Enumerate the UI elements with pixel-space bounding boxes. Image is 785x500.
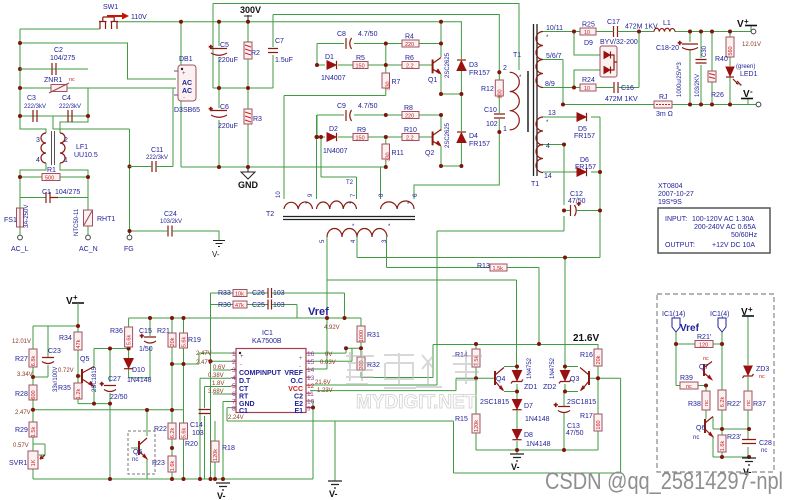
dual diode D9 BYV32-200	[584, 39, 638, 77]
svg-text:R19: R19	[188, 337, 201, 344]
svg-text:1N4007: 1N4007	[321, 75, 346, 82]
wire: ZD2 C13 column	[564, 367, 578, 451]
resistor R21b	[695, 334, 713, 349]
svg-text:103/2kV: 103/2kV	[160, 219, 182, 225]
svg-text:500: 500	[45, 176, 54, 182]
resistor R15	[455, 414, 480, 433]
wire: C24 line to V-	[130, 231, 220, 240]
svg-text:C16: C16	[621, 85, 634, 92]
svg-text:1000: 1000	[359, 330, 365, 342]
wire: nc box V+ ZD3 R37 C28 column	[747, 316, 749, 458]
ground GND symbol	[238, 167, 259, 190]
label V+ control	[66, 293, 84, 307]
IC pin voltage annotations	[196, 351, 336, 421]
svg-text:OUTPUT:: OUTPUT:	[665, 242, 695, 249]
wire: T2 feedback pin3 line with R13 to 21.6V rail	[387, 237, 540, 344]
svg-text:R23: R23	[152, 460, 165, 467]
svg-text:21.6V: 21.6V	[573, 333, 599, 344]
svg-text:C17: C17	[607, 19, 620, 26]
svg-text:R12: R12	[481, 86, 494, 93]
transistor Q2 2SC2625	[425, 122, 451, 157]
svg-text:+: +	[209, 107, 213, 113]
resistor R40	[715, 37, 734, 63]
svg-text:C11: C11	[151, 147, 163, 154]
svg-text:6: 6	[232, 391, 236, 398]
svg-text:Vref: Vref	[308, 306, 329, 318]
wire: Q2 collector emitter	[441, 115, 461, 166]
wire: GND rail	[181, 166, 386, 168]
wire: T2 pin9 column	[316, 115, 318, 199]
svg-text:nc: nc	[761, 448, 767, 454]
resistor R3	[244, 109, 262, 124]
transistor Q1 2SC2625	[428, 52, 451, 84]
transformer T2 feedback winding bottom row	[320, 224, 391, 243]
resistor R26	[708, 71, 724, 99]
wire: R19 R20 column	[183, 318, 185, 479]
transistor Q6b	[693, 417, 713, 442]
resistor R27	[12, 339, 37, 378]
text XT0804 block	[658, 183, 694, 206]
svg-text:Q6: Q6	[133, 449, 142, 456]
svg-text:C8: C8	[337, 31, 346, 38]
svg-text:BYV/32-200: BYV/32-200	[600, 39, 638, 46]
svg-text:1.5k: 1.5k	[493, 266, 504, 272]
resistor R25	[580, 22, 596, 37]
wire: 300V rail	[118, 21, 462, 23]
wire: nc box flag columns and R21b line	[676, 332, 722, 386]
capacitor C26	[252, 288, 285, 298]
svg-text:2SC1815: 2SC1815	[567, 399, 596, 406]
svg-text:ZD1: ZD1	[524, 384, 537, 391]
svg-text:R34: R34	[59, 335, 72, 342]
svg-text:10: 10	[584, 86, 590, 92]
wire: R7 column	[385, 44, 387, 96]
svg-text:5.6k: 5.6k	[127, 335, 133, 346]
resistor R13	[477, 263, 507, 272]
wire: IC pin11 line to Q4 base	[310, 378, 495, 390]
diode D2	[323, 126, 348, 155]
svg-text:-: -	[750, 87, 753, 96]
svg-text:D1: D1	[325, 54, 334, 61]
svg-text:120k: 120k	[213, 449, 219, 461]
svg-text:C27: C27	[108, 376, 121, 383]
dashed service box	[657, 294, 774, 472]
wire: 2.24V line to Q3 base	[454, 378, 621, 473]
svg-text:FR157: FR157	[469, 141, 490, 148]
svg-text:+: +	[554, 403, 558, 409]
svg-text:12.01V: 12.01V	[742, 42, 761, 48]
svg-text:IC1(4): IC1(4)	[710, 311, 729, 318]
svg-text:20k: 20k	[596, 355, 602, 364]
svg-text:103: 103	[192, 430, 204, 437]
svg-text:13: 13	[307, 375, 315, 382]
resistor R36	[110, 327, 133, 347]
svg-text:10: 10	[307, 399, 315, 406]
svg-text:10: 10	[276, 191, 282, 198]
wire: T2 primary pin1 to pin6	[414, 132, 499, 199]
wire: R30 C25 line	[211, 305, 298, 319]
resistor R11	[382, 144, 404, 162]
svg-text:D10: D10	[132, 367, 145, 374]
svg-text:300V: 300V	[240, 5, 261, 15]
svg-text:T2: T2	[346, 180, 354, 186]
svg-text:CT: CT	[239, 386, 249, 393]
svg-text:47k: 47k	[235, 303, 244, 309]
svg-text:GND: GND	[238, 180, 259, 190]
svg-text:47/50: 47/50	[568, 198, 586, 205]
resistor R19	[180, 333, 201, 348]
svg-text:2.47V: 2.47V	[196, 351, 212, 357]
svg-text:L1: L1	[663, 20, 671, 27]
wire: IC pin7 ground column	[223, 402, 231, 480]
svg-text:1: 1	[64, 157, 68, 164]
svg-text:R31: R31	[367, 332, 380, 339]
svg-text:O.C: O.C	[291, 378, 303, 385]
svg-text:R20: R20	[185, 441, 198, 448]
svg-text:R2: R2	[251, 50, 260, 57]
svg-text:C26: C26	[252, 290, 265, 297]
diode D6	[575, 157, 596, 176]
wire: R33 C26 line	[211, 293, 345, 318]
svg-text:C13: C13	[567, 423, 580, 430]
svg-text:CSDN @qq_25814297-npl: CSDN @qq_25814297-npl	[545, 468, 783, 495]
svg-text:nc: nc	[686, 384, 692, 390]
svg-text:1.8V: 1.8V	[212, 381, 224, 387]
svg-text:V: V	[741, 307, 748, 318]
wire: lower drive cell D2 R9 R10	[317, 136, 433, 138]
svg-text:C3: C3	[27, 95, 36, 102]
svg-text:2: 2	[232, 359, 236, 366]
wire: C2 line	[20, 68, 88, 70]
svg-text:RJ: RJ	[659, 94, 668, 101]
wire: C11 line	[130, 88, 174, 167]
spec box INPUT OUTPUT	[658, 208, 770, 253]
svg-text:V-: V-	[511, 462, 520, 472]
svg-text:1/50: 1/50	[139, 346, 153, 353]
svg-text:C5: C5	[220, 42, 229, 49]
svg-text:R16: R16	[580, 352, 593, 359]
svg-text:10k: 10k	[235, 292, 244, 298]
terminal AC_N	[86, 235, 91, 240]
diode D7	[512, 400, 549, 424]
capacitor C5	[209, 42, 238, 64]
svg-text:IC1(14): IC1(14)	[662, 311, 685, 318]
svg-text:COMPINPUT: COMPINPUT	[239, 370, 282, 377]
svg-text:D4: D4	[469, 133, 478, 140]
svg-text:104/275: 104/275	[50, 55, 75, 62]
svg-text:-: -	[240, 362, 242, 368]
svg-text:UU10.5: UU10.5	[74, 152, 98, 159]
wire: IC pin4 column	[200, 378, 231, 479]
svg-text:R9: R9	[357, 127, 366, 134]
svg-text:FG: FG	[124, 246, 134, 253]
wire: ZD1 D7 D8 column	[504, 367, 517, 455]
svg-text:150: 150	[356, 64, 365, 70]
node flag IC1(14)	[662, 311, 700, 334]
svg-text:R13: R13	[477, 263, 490, 270]
resistor R16	[580, 349, 602, 366]
capacitor C6	[209, 104, 238, 130]
svg-text:R3: R3	[253, 116, 262, 123]
potentiometer SVR1	[9, 451, 45, 469]
svg-text:47/50: 47/50	[566, 430, 584, 437]
svg-text:5.6k: 5.6k	[182, 337, 188, 348]
watermark center	[346, 350, 482, 413]
resistor R22	[154, 423, 176, 439]
svg-text:120k: 120k	[474, 420, 480, 432]
svg-text:nc: nc	[132, 457, 138, 463]
resistor R24	[580, 77, 596, 92]
svg-text:DB1: DB1	[179, 56, 193, 63]
svg-text:IC1: IC1	[262, 330, 273, 337]
svg-text:R26: R26	[711, 92, 724, 99]
wire: R21 R22 R23 column	[171, 318, 173, 479]
wire: T2 feedback pin4 line to ZD2	[357, 237, 600, 367]
svg-text:5.6k: 5.6k	[182, 428, 188, 439]
svg-text:220uF: 220uF	[218, 123, 238, 130]
svg-text:R11: R11	[392, 150, 404, 157]
svg-text:V: V	[66, 296, 73, 307]
svg-text:R21: R21	[157, 328, 170, 335]
svg-text:1.2k: 1.2k	[76, 389, 82, 400]
diode D3	[457, 60, 490, 77]
svg-text:1N4148: 1N4148	[525, 416, 550, 423]
zener ZD1	[511, 357, 537, 391]
wire: SVR1 wiper	[33, 444, 45, 455]
svg-text:D9: D9	[584, 40, 593, 47]
diode D5	[574, 113, 595, 140]
wire: T2 pin7 line	[321, 137, 357, 199]
capacitor C28	[742, 440, 772, 455]
wire: nc box R38 Q6b column	[706, 386, 713, 458]
transistor Q5 2SC1815	[80, 356, 98, 392]
svg-text:SW1: SW1	[103, 4, 118, 11]
svg-text:4: 4	[546, 143, 550, 150]
capacitor C7	[268, 38, 293, 64]
svg-text:VREF: VREF	[284, 370, 303, 377]
svg-text:0.03V: 0.03V	[320, 360, 336, 366]
svg-text:nc: nc	[693, 435, 699, 441]
svg-text:13: 13	[548, 110, 556, 117]
svg-text:102: 102	[486, 121, 498, 128]
svg-text:4.7/50: 4.7/50	[358, 103, 378, 110]
capacitor C2	[20, 47, 88, 75]
svg-text:R39: R39	[680, 375, 693, 382]
svg-text:R25: R25	[582, 22, 595, 29]
svg-text:R22': R22'	[727, 401, 741, 408]
svg-text:4.7/50: 4.7/50	[358, 31, 378, 38]
wire: T2 pin8 stub	[380, 167, 382, 199]
resistor R10	[402, 127, 419, 142]
svg-text:104/275: 104/275	[55, 189, 80, 196]
resistor R37	[744, 391, 766, 410]
resistor R17	[580, 413, 602, 431]
resistor R22b	[718, 390, 741, 410]
svg-text:Q7: Q7	[699, 364, 708, 371]
varistor ZNR1	[44, 77, 75, 93]
svg-text:FS1: FS1	[4, 217, 17, 224]
resistor R2	[244, 42, 260, 59]
transistor Q4 2SC1815	[480, 368, 509, 407]
svg-text:R38: R38	[688, 401, 701, 408]
svg-text:1N4752: 1N4752	[527, 357, 533, 379]
resistor R23	[152, 456, 176, 472]
svg-text:nc: nc	[746, 400, 752, 406]
svg-text:1K: 1K	[31, 459, 37, 466]
svg-text:Q5: Q5	[80, 356, 89, 363]
wire: nc box lines y429 y457	[713, 429, 749, 457]
svg-text:C9: C9	[337, 103, 346, 110]
svg-text:D3SB65: D3SB65	[174, 107, 200, 114]
wire: 2.47V sense line	[33, 409, 184, 411]
svg-text:R8: R8	[404, 105, 413, 112]
svg-text:nc: nc	[704, 400, 710, 406]
svg-text:R15: R15	[455, 416, 468, 423]
resistor R6	[402, 55, 419, 70]
svg-text:C30: C30	[702, 45, 708, 57]
svg-text:21.6V: 21.6V	[315, 380, 331, 386]
svg-text:12.01V: 12.01V	[12, 339, 31, 345]
svg-text:R37: R37	[753, 401, 766, 408]
capacitor C10	[484, 107, 505, 128]
svg-text:C15: C15	[139, 328, 152, 335]
wire: SW1 voltage selector line	[213, 4, 519, 89]
wire: R1 C1 discharge lines	[20, 177, 88, 198]
svg-text:V-: V-	[217, 491, 226, 500]
svg-text:D8: D8	[524, 432, 533, 439]
svg-text:ZD3: ZD3	[756, 366, 769, 373]
svg-text:1.5uF: 1.5uF	[275, 57, 293, 64]
svg-text:C7: C7	[275, 38, 284, 45]
svg-text:Q6: Q6	[696, 425, 705, 432]
svg-text:+12V DC 10A: +12V DC 10A	[712, 242, 755, 249]
wire: C23 column	[33, 326, 48, 377]
svg-text:AC: AC	[182, 80, 192, 87]
svg-text:9: 9	[307, 406, 311, 413]
svg-text:103/2KV: 103/2KV	[695, 74, 701, 97]
svg-text:ZNR1: ZNR1	[44, 77, 62, 84]
svg-text:R1: R1	[47, 167, 56, 174]
svg-text:R7: R7	[392, 79, 401, 86]
svg-text:V: V	[743, 89, 750, 100]
svg-text:+: +	[744, 17, 749, 26]
wire: IC pin5 C14 column	[205, 387, 232, 480]
svg-text:+: +	[100, 382, 104, 388]
svg-text:2SC1815: 2SC1815	[92, 366, 98, 392]
svg-text:222/3kV: 222/3kV	[146, 155, 168, 161]
transformer T2 primary winding	[503, 52, 528, 133]
svg-text:1N4148: 1N4148	[127, 377, 152, 384]
svg-text:560: 560	[728, 46, 734, 55]
svg-text:100: 100	[497, 89, 503, 98]
resistor R34	[58, 332, 82, 374]
svg-text:2.47V: 2.47V	[15, 410, 31, 416]
svg-text:R35: R35	[58, 385, 71, 392]
svg-text:D2: D2	[329, 126, 338, 133]
wire: IC pin8 to 2.24V line	[227, 408, 454, 421]
svg-text:C2: C2	[54, 47, 63, 54]
svg-text:C23: C23	[48, 348, 61, 355]
svg-text:7: 7	[232, 399, 236, 406]
svg-text:200-240V AC 0.65A: 200-240V AC 0.65A	[694, 224, 756, 231]
svg-text:2.2: 2.2	[406, 136, 414, 142]
svg-text:V-: V-	[212, 250, 220, 259]
svg-text:R4: R4	[405, 34, 414, 41]
svg-text:NTC50-11: NTC50-11	[74, 208, 80, 236]
wire: pin1 feedback line	[172, 353, 231, 364]
wire: DB1 plus to 300V rail	[180, 22, 182, 65]
svg-text:1N4752: 1N4752	[550, 357, 556, 379]
diode D4	[457, 132, 490, 148]
wire: AC line filter left rail	[20, 29, 100, 235]
svg-text:R27: R27	[15, 356, 28, 363]
wire: R14 R15 column	[475, 344, 477, 450]
svg-text:3.68V: 3.68V	[208, 389, 224, 395]
svg-text:50/60Hz: 50/60Hz	[731, 232, 758, 239]
resistor R12	[481, 80, 503, 99]
wire: IC pin9 pin10 emitters	[310, 401, 313, 479]
svg-text:2: 2	[503, 65, 507, 72]
resistor R8	[402, 105, 419, 120]
capacitor C3	[24, 95, 46, 122]
wire: upper drive cell C8 R4	[317, 44, 441, 66]
svg-text:C28: C28	[759, 440, 772, 447]
wire: R36 D10 column	[94, 318, 150, 378]
capacitor C23	[42, 348, 61, 392]
wire: Q6 service transistor links	[131, 410, 147, 479]
wire: D5 D6 cathode column down to feedback line	[599, 117, 601, 258]
resistor R28	[15, 385, 37, 416]
terminal V+ output	[737, 17, 761, 48]
terminal AC_L	[18, 235, 23, 240]
shunt resistor RJ	[654, 94, 673, 118]
ground V- below C24	[212, 241, 225, 260]
wire: DB1 minus to GND rail	[180, 101, 182, 167]
svg-text:1.6k: 1.6k	[170, 461, 176, 472]
svg-text:V: V	[737, 19, 744, 30]
svg-text:6.8k: 6.8k	[31, 356, 37, 367]
svg-text:R30: R30	[218, 302, 231, 309]
svg-text:nc: nc	[703, 356, 709, 362]
resistor R30	[218, 301, 247, 309]
svg-text:1N4007: 1N4007	[323, 148, 348, 155]
svg-text:LF1: LF1	[76, 144, 88, 151]
svg-text:R28: R28	[15, 391, 28, 398]
wire: T1 pin 8/9 line with R24 C16	[543, 32, 639, 88]
svg-text:47k: 47k	[76, 339, 82, 348]
svg-text:160: 160	[596, 420, 602, 429]
capacitor C25	[252, 300, 285, 310]
svg-text:1000u/25V*3: 1000u/25V*3	[677, 62, 683, 97]
svg-text:5: 5	[232, 383, 236, 390]
ground V- secondary	[510, 454, 524, 472]
svg-text:16: 16	[307, 351, 315, 358]
wire: IC pin16 pin15 to R31 R32 node	[310, 348, 361, 361]
svg-text:6.2k: 6.2k	[170, 428, 176, 439]
svg-text:MYDIGIT.NET: MYDIGIT.NET	[356, 392, 477, 413]
resistor R23b	[718, 434, 741, 452]
svg-text:15: 15	[307, 359, 315, 366]
svg-text:R23': R23'	[727, 434, 741, 441]
resistor R20	[180, 423, 198, 448]
svg-text:T1: T1	[513, 52, 521, 59]
svg-text:2SC2625: 2SC2625	[445, 122, 451, 148]
terminal V- output	[741, 87, 761, 107]
svg-text:SVR1: SVR1	[9, 460, 27, 467]
svg-text:AC_N: AC_N	[79, 246, 98, 253]
wire: 21.6V rail	[361, 345, 598, 378]
fuse FS1	[4, 205, 30, 228]
